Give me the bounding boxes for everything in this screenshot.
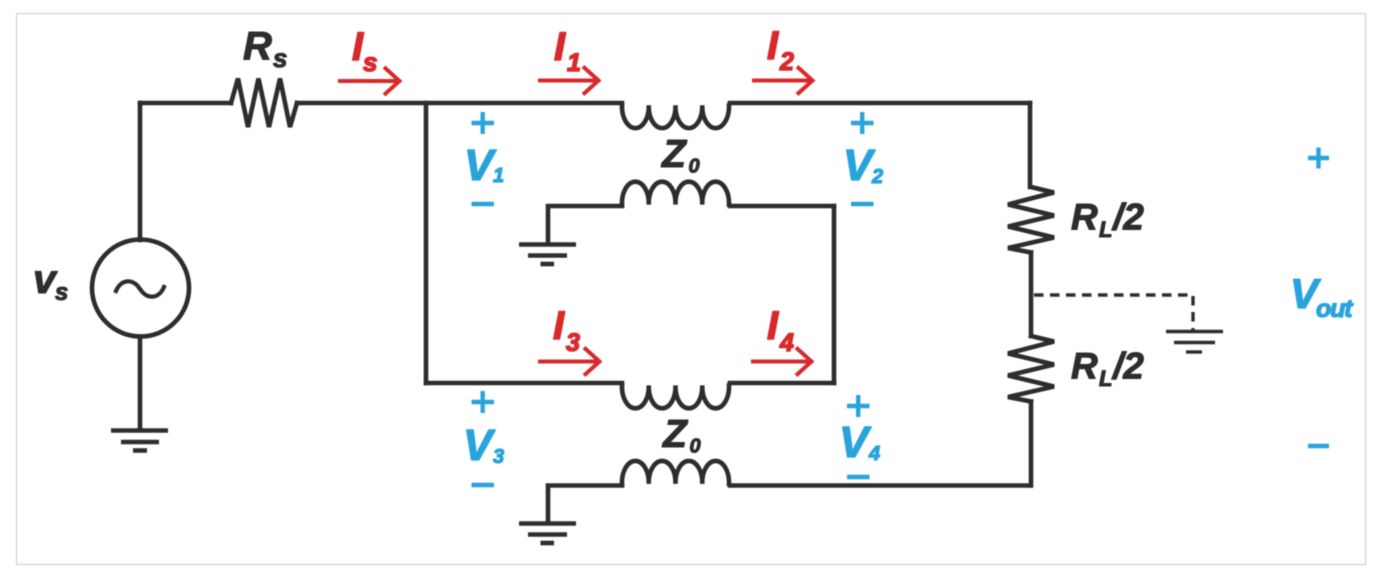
wire: right rail top segment: [1028, 103, 1033, 187]
wire: T1 primary to right rail: [730, 101, 1030, 106]
current label I1: [554, 25, 581, 77]
label RL/2 upper: [1071, 197, 1144, 243]
resistor RL/2 upper: [1008, 187, 1054, 253]
wire: T2 secondary right lead to right rail: [730, 483, 1030, 488]
voltage annotation Vout: [1290, 148, 1354, 447]
svg-text:V: V: [463, 421, 496, 470]
voltage source sine symbol: [116, 281, 164, 296]
label Z0 of T2: [662, 413, 701, 458]
wire: right rail bottom segment: [1029, 402, 1034, 486]
svg-text:s: s: [363, 47, 377, 77]
svg-text:R: R: [243, 25, 272, 69]
current label I3: [553, 304, 580, 357]
voltage source vs circle: [92, 240, 189, 337]
voltage annotation V2: [843, 112, 883, 204]
current arrow I3: [538, 348, 600, 376]
wire: source bottom lead: [138, 337, 143, 429]
svg-text:1: 1: [493, 165, 504, 187]
ground: T1 secondary: [519, 245, 576, 265]
wire: Rs to T1 primary: [297, 101, 622, 106]
label Z0 of T1: [661, 133, 700, 178]
wire: lower loop horizontal left (I3 wire): [426, 381, 622, 386]
svg-text:/2: /2: [1111, 197, 1144, 238]
ground: T2 secondary: [519, 524, 576, 544]
wire: T2 secondary left lead: [548, 486, 622, 521]
svg-text:1: 1: [567, 49, 581, 77]
voltage annotation V3: [463, 391, 504, 485]
current label I4: [767, 304, 794, 357]
voltage annotation V1: [464, 112, 504, 204]
svg-text:I: I: [767, 304, 779, 348]
current arrow I2: [752, 67, 813, 95]
svg-text:out: out: [1316, 295, 1354, 323]
wire: lower loop horizontal right (I4 wire): [730, 381, 834, 386]
current label I2: [767, 24, 794, 76]
svg-text:3: 3: [493, 446, 504, 468]
svg-text:R: R: [1071, 346, 1098, 387]
svg-text:0: 0: [690, 436, 701, 458]
resistor RS: [231, 79, 297, 128]
svg-text:I: I: [553, 304, 565, 348]
label RS: [243, 25, 287, 74]
svg-text:2: 2: [871, 166, 883, 188]
svg-text:V: V: [839, 418, 872, 467]
svg-text:I: I: [767, 24, 779, 68]
transformer T1 primary coil Z0: [622, 105, 729, 128]
wire: source top lead: [138, 103, 143, 240]
svg-text:2: 2: [779, 48, 794, 76]
wire: node A vertical (junction to lower loop): [424, 103, 429, 383]
transformer T1 secondary coil: [622, 182, 729, 205]
resistor RL/2 lower: [1008, 336, 1054, 402]
svg-text:s: s: [273, 43, 287, 73]
transformer T2 primary coil Z0: [622, 386, 729, 409]
svg-text:0: 0: [689, 156, 700, 178]
svg-text:4: 4: [868, 443, 880, 465]
wire: right rail middle segment: [1029, 253, 1034, 337]
svg-text:3: 3: [566, 329, 580, 357]
current label Is: [352, 25, 377, 77]
voltage annotation V4: [839, 395, 880, 477]
svg-text:R: R: [1071, 197, 1098, 238]
current arrow Is: [338, 67, 400, 95]
dashed center-tap reference wire: [1034, 295, 1193, 330]
svg-text:4: 4: [779, 329, 794, 357]
wire: top horizontal left of Rs: [140, 101, 231, 106]
ground: center-tap reference: [1166, 332, 1223, 353]
svg-text:s: s: [55, 279, 68, 306]
ground: source: [111, 431, 168, 451]
wire: T1 secondary left lead: [548, 206, 622, 242]
current arrow I1: [538, 67, 599, 95]
wire: T1 secondary right lead: [730, 204, 834, 209]
svg-text:Z: Z: [661, 133, 688, 176]
svg-text:/2: /2: [1111, 346, 1144, 387]
svg-text:I: I: [554, 25, 566, 69]
current arrow I4: [751, 348, 812, 376]
svg-text:Z: Z: [662, 413, 689, 456]
svg-text:L: L: [1099, 366, 1112, 391]
transformer T2 secondary coil: [622, 461, 729, 484]
label vs: [33, 256, 68, 306]
label RL/2 lower: [1071, 346, 1144, 392]
svg-text:L: L: [1099, 217, 1112, 242]
wire: vertical riser x=834: [832, 206, 837, 383]
